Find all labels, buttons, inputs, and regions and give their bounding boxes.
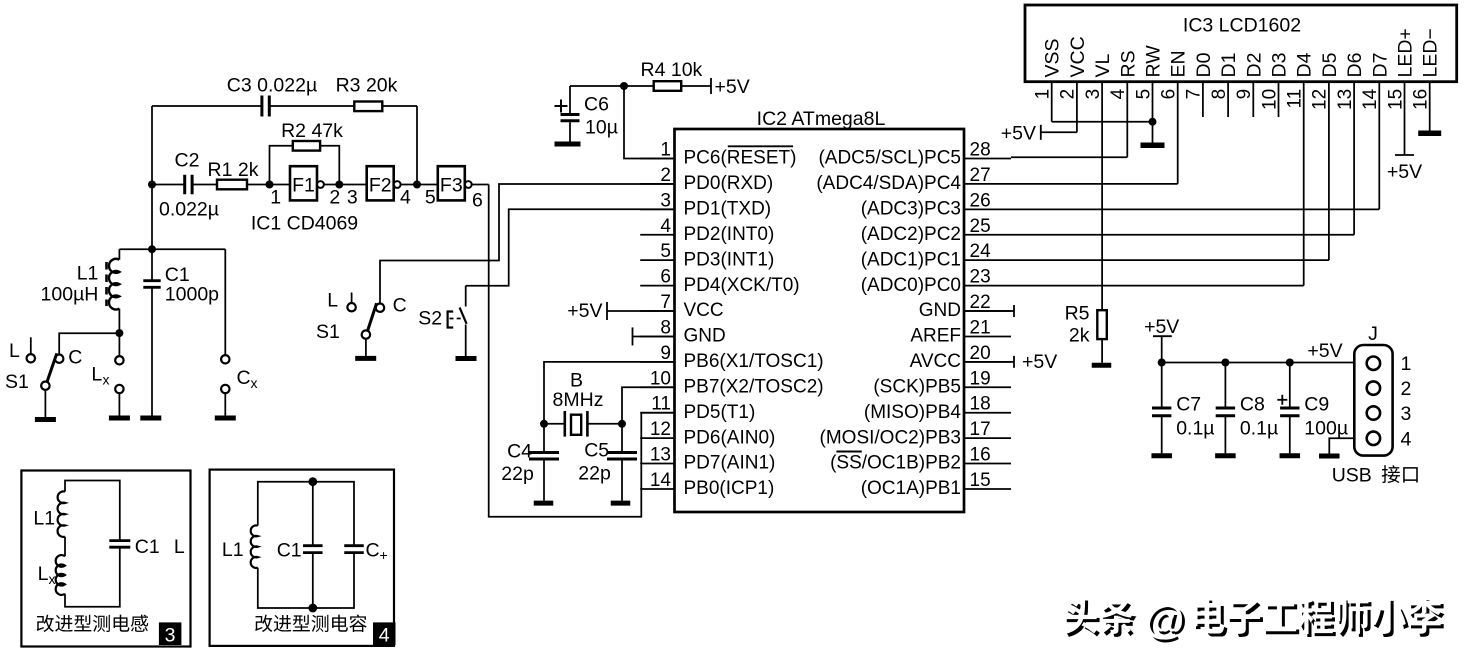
svg-text:2: 2 xyxy=(329,187,340,209)
svg-text:F3: F3 xyxy=(440,175,463,197)
svg-text:12: 12 xyxy=(1310,89,1331,110)
svg-text:8: 8 xyxy=(660,317,671,338)
svg-text:22: 22 xyxy=(970,292,991,313)
svg-text:RW: RW xyxy=(1143,45,1165,78)
svg-text:(SCK)PB5: (SCK)PB5 xyxy=(873,376,961,397)
svg-text:L1: L1 xyxy=(222,539,244,561)
svg-text:7: 7 xyxy=(660,292,671,313)
svg-text:6: 6 xyxy=(1159,89,1180,100)
svg-text:5: 5 xyxy=(660,241,671,262)
svg-text:13: 13 xyxy=(650,445,671,466)
svg-text:(ADC2)PC2: (ADC2)PC2 xyxy=(861,224,961,245)
svg-text:(MOSI/OC2)PB3: (MOSI/OC2)PB3 xyxy=(820,427,961,448)
svg-text:16: 16 xyxy=(970,445,991,466)
svg-text:D7: D7 xyxy=(1369,53,1391,78)
svg-text:PB6(X1/TOSC1): PB6(X1/TOSC1) xyxy=(684,351,824,372)
svg-text:1: 1 xyxy=(270,187,281,209)
svg-text:13: 13 xyxy=(1335,89,1356,110)
svg-text:2k: 2k xyxy=(1069,325,1090,347)
svg-text:GND: GND xyxy=(684,326,726,347)
svg-text:C: C xyxy=(68,347,82,369)
svg-text:21: 21 xyxy=(970,317,991,338)
svg-text:R2 47k: R2 47k xyxy=(281,120,343,142)
svg-text:D5: D5 xyxy=(1319,52,1341,77)
svg-text:(ADC4/SDA)PC4: (ADC4/SDA)PC4 xyxy=(816,173,961,194)
svg-text:S1: S1 xyxy=(5,371,29,393)
svg-text:C: C xyxy=(366,540,380,562)
svg-text:C3 0.022µ: C3 0.022µ xyxy=(227,75,317,97)
svg-text:C9: C9 xyxy=(1304,394,1329,416)
svg-text:1: 1 xyxy=(1033,89,1054,100)
svg-text:1: 1 xyxy=(1401,353,1412,375)
svg-text:F2: F2 xyxy=(369,175,392,197)
svg-text:+5V: +5V xyxy=(1022,351,1057,373)
svg-text:(MISO)PB4: (MISO)PB4 xyxy=(864,402,962,423)
svg-text:PD4(XCK/T0): PD4(XCK/T0) xyxy=(684,275,800,296)
svg-text:4: 4 xyxy=(660,216,671,237)
svg-text:J: J xyxy=(1368,323,1378,345)
svg-text:R1 2k: R1 2k xyxy=(208,159,259,181)
svg-text:+5V: +5V xyxy=(1307,340,1342,362)
svg-text:D0: D0 xyxy=(1193,52,1215,77)
svg-text:2: 2 xyxy=(1058,89,1079,100)
svg-text:10µ: 10µ xyxy=(585,117,618,139)
svg-text:D6: D6 xyxy=(1344,53,1366,78)
svg-text:+5V: +5V xyxy=(715,76,750,98)
svg-text:3: 3 xyxy=(660,190,671,211)
svg-text:AREF: AREF xyxy=(910,326,961,347)
svg-text:D4: D4 xyxy=(1294,52,1316,77)
svg-text:VCC: VCC xyxy=(1067,36,1089,77)
svg-text:11: 11 xyxy=(651,394,671,415)
svg-text:1: 1 xyxy=(660,140,671,161)
svg-text:L1: L1 xyxy=(33,508,55,530)
svg-text:3: 3 xyxy=(165,625,176,647)
svg-text:9: 9 xyxy=(660,343,671,364)
svg-text:14: 14 xyxy=(650,470,672,491)
svg-text:PB0(ICP1): PB0(ICP1) xyxy=(684,478,775,499)
svg-text:LED−: LED− xyxy=(1420,28,1442,77)
svg-text:6: 6 xyxy=(472,190,483,212)
svg-text:PD0(RXD): PD0(RXD) xyxy=(684,173,774,194)
svg-text:5: 5 xyxy=(1133,89,1154,100)
svg-text:100µ: 100µ xyxy=(1304,418,1348,440)
svg-text:4: 4 xyxy=(1401,428,1412,450)
svg-text:4: 4 xyxy=(379,625,390,647)
svg-text:+: + xyxy=(380,547,388,563)
svg-text:2: 2 xyxy=(1401,378,1412,400)
svg-text:R5: R5 xyxy=(1065,303,1090,325)
svg-text:D1: D1 xyxy=(1218,53,1240,78)
svg-text:3: 3 xyxy=(347,187,358,209)
svg-text:L: L xyxy=(91,364,102,386)
svg-text:PC6(RESET): PC6(RESET) xyxy=(684,148,797,169)
svg-text:VSS: VSS xyxy=(1042,38,1064,77)
svg-text:L1: L1 xyxy=(77,263,99,285)
svg-text:IC1 CD4069: IC1 CD4069 xyxy=(251,213,358,235)
svg-text:PD1(TXD): PD1(TXD) xyxy=(684,199,772,220)
svg-text:2: 2 xyxy=(660,165,671,186)
svg-text:12: 12 xyxy=(650,419,671,440)
svg-text:18: 18 xyxy=(970,394,991,415)
svg-text:C7: C7 xyxy=(1176,394,1201,416)
svg-text:15: 15 xyxy=(970,470,991,491)
svg-text:x: x xyxy=(49,571,56,587)
svg-text:L: L xyxy=(327,290,338,312)
svg-text:IC2 ATmega8L: IC2 ATmega8L xyxy=(757,108,886,130)
svg-text:C: C xyxy=(393,295,407,317)
svg-text:PD3(INT1): PD3(INT1) xyxy=(684,249,775,270)
svg-text:4: 4 xyxy=(1108,88,1129,99)
svg-text:C5: C5 xyxy=(584,440,609,462)
svg-text:C2: C2 xyxy=(175,150,200,172)
svg-text:PD2(INT0): PD2(INT0) xyxy=(684,224,775,245)
svg-text:25: 25 xyxy=(970,216,991,237)
svg-text:USB: USB xyxy=(1332,465,1372,487)
svg-text:VL: VL xyxy=(1092,53,1114,77)
svg-text:23: 23 xyxy=(970,267,991,288)
svg-text:S1: S1 xyxy=(316,321,340,343)
svg-text:EN: EN xyxy=(1168,50,1190,77)
svg-text:LED+: LED+ xyxy=(1395,28,1417,77)
svg-text:D3: D3 xyxy=(1269,53,1291,78)
svg-text:19: 19 xyxy=(970,368,991,389)
svg-text:C6: C6 xyxy=(584,94,609,116)
svg-text:C1: C1 xyxy=(135,536,160,558)
svg-text:28: 28 xyxy=(970,140,991,161)
svg-text:10: 10 xyxy=(650,368,671,389)
svg-text:8: 8 xyxy=(1209,89,1230,100)
svg-text:@: @ xyxy=(1144,596,1184,642)
svg-text:(SS/OC1B)PB2: (SS/OC1B)PB2 xyxy=(830,453,961,474)
svg-text:27: 27 xyxy=(970,165,991,186)
svg-text:16: 16 xyxy=(1411,89,1432,110)
svg-text:VCC: VCC xyxy=(684,300,724,321)
svg-text:D2: D2 xyxy=(1243,53,1265,78)
svg-text:10: 10 xyxy=(1259,89,1280,110)
svg-text:F1: F1 xyxy=(292,175,315,197)
svg-text:RS: RS xyxy=(1117,50,1139,77)
svg-text:(ADC1)PC1: (ADC1)PC1 xyxy=(861,249,961,270)
svg-text:4: 4 xyxy=(400,187,411,209)
svg-text:(ADC5/SCL)PC5: (ADC5/SCL)PC5 xyxy=(818,148,961,169)
svg-text:0.1µ: 0.1µ xyxy=(1176,418,1214,440)
svg-text:x: x xyxy=(103,372,110,388)
svg-text:GND: GND xyxy=(919,300,961,321)
svg-text:22p: 22p xyxy=(501,463,534,485)
svg-text:R3 20k: R3 20k xyxy=(336,75,398,97)
svg-text:+5V: +5V xyxy=(567,300,602,322)
svg-text:C: C xyxy=(237,367,251,389)
svg-text:AVCC: AVCC xyxy=(910,351,961,372)
svg-text:5: 5 xyxy=(425,187,436,209)
svg-text:6: 6 xyxy=(660,267,671,288)
svg-text:9: 9 xyxy=(1234,89,1255,100)
svg-text:+5V: +5V xyxy=(1387,161,1422,183)
svg-text:(ADC3)PC3: (ADC3)PC3 xyxy=(861,199,961,220)
svg-text:PD5(T1): PD5(T1) xyxy=(684,402,756,423)
svg-text:IC3 LCD1602: IC3 LCD1602 xyxy=(1183,15,1301,37)
svg-text:3: 3 xyxy=(1083,89,1104,100)
svg-text:22p: 22p xyxy=(578,463,611,485)
svg-text:R4 10k: R4 10k xyxy=(641,59,703,81)
svg-text:PD7(AIN1): PD7(AIN1) xyxy=(684,453,776,474)
svg-text:14: 14 xyxy=(1360,88,1381,110)
svg-text:8MHz: 8MHz xyxy=(553,389,604,411)
svg-text:20: 20 xyxy=(970,343,991,364)
svg-text:(ADC0)PC0: (ADC0)PC0 xyxy=(861,275,961,296)
svg-text:+5V: +5V xyxy=(1144,316,1179,338)
svg-text:0.1µ: 0.1µ xyxy=(1240,418,1278,440)
svg-text:C8: C8 xyxy=(1240,394,1265,416)
svg-text:C1: C1 xyxy=(277,540,302,562)
svg-text:15: 15 xyxy=(1385,89,1406,110)
svg-text:+5V: +5V xyxy=(1001,123,1036,145)
svg-text:PB7(X2/TOSC2): PB7(X2/TOSC2) xyxy=(684,376,824,397)
svg-text:PD6(AIN0): PD6(AIN0) xyxy=(684,427,776,448)
svg-text:17: 17 xyxy=(970,419,991,440)
svg-text:3: 3 xyxy=(1401,403,1412,425)
svg-text:(OC1A)PB1: (OC1A)PB1 xyxy=(861,478,961,499)
svg-text:26: 26 xyxy=(970,190,991,211)
svg-text:x: x xyxy=(251,375,258,391)
svg-text:24: 24 xyxy=(970,241,992,262)
svg-text:1000p: 1000p xyxy=(165,284,219,306)
svg-text:L: L xyxy=(38,563,49,585)
svg-text:100µH: 100µH xyxy=(41,284,99,306)
svg-text:7: 7 xyxy=(1184,89,1205,100)
svg-text:L: L xyxy=(174,536,185,558)
svg-text:L: L xyxy=(9,340,20,362)
svg-text:0.022µ: 0.022µ xyxy=(159,199,219,221)
svg-text:S2: S2 xyxy=(418,308,442,330)
svg-text:C4: C4 xyxy=(507,441,532,463)
svg-text:11: 11 xyxy=(1285,89,1306,109)
